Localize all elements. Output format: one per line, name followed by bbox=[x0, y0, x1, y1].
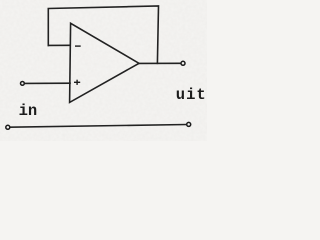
svg-text:in: in bbox=[19, 102, 38, 120]
svg-text:uit: uit bbox=[176, 86, 207, 104]
